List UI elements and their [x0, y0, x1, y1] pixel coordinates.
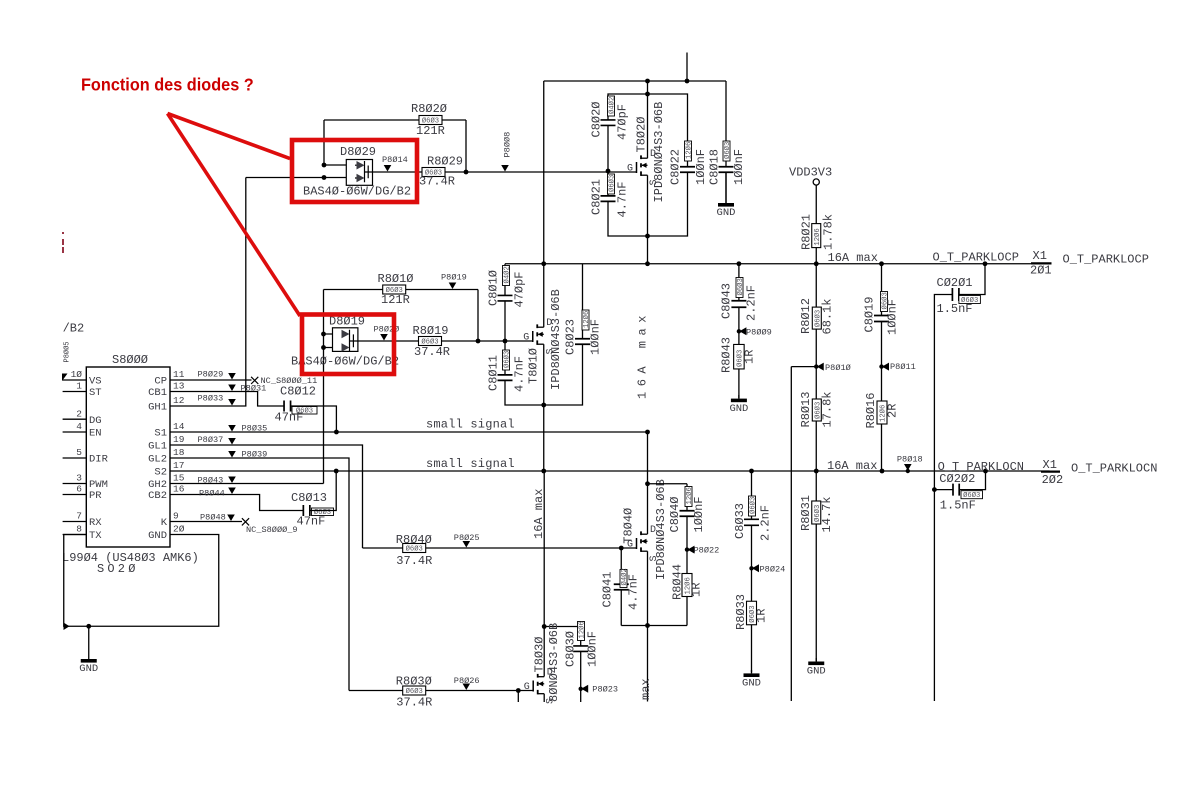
svg-text:1ØØnF: 1ØØnF — [694, 149, 708, 185]
pin 10 VS — [63, 379, 87, 381]
svg-text:Ø6Ø3: Ø6Ø3 — [748, 497, 757, 514]
svg-text:5: 5 — [76, 447, 82, 458]
T8020 cell box — [608, 94, 688, 236]
svg-text:R8Ø33: R8Ø33 — [734, 594, 748, 630]
transistor T8020 — [636, 162, 638, 173]
svg-text:2.2nF: 2.2nF — [759, 505, 773, 541]
resistor R8021 — [812, 224, 821, 248]
svg-text:47ØpF: 47ØpF — [513, 271, 527, 307]
svg-text:68.1k: 68.1k — [821, 298, 835, 334]
svg-text:C8Ø13: C8Ø13 — [291, 491, 327, 505]
svg-text:BAS4Ø-Ø6W/DG/B2: BAS4Ø-Ø6W/DG/B2 — [303, 185, 411, 199]
test point P8022 — [685, 547, 689, 551]
capacitor C8021 — [607, 196, 610, 202]
svg-text:1.5nF: 1.5nF — [940, 499, 976, 513]
nodes on P bus — [541, 261, 546, 266]
resistor R8016 — [877, 401, 887, 424]
svg-text:R8Ø13: R8Ø13 — [799, 391, 813, 427]
svg-text:37.4R: 37.4R — [396, 554, 432, 568]
test point P8014 — [384, 165, 392, 172]
svg-text:P8Ø18: P8Ø18 — [897, 455, 923, 465]
svg-text:P8Ø23: P8Ø23 — [592, 685, 618, 695]
svg-text:NC_S8ØØØ_9: NC_S8ØØØ_9 — [246, 525, 298, 535]
pin 7 RX — [63, 521, 87, 523]
test point P8043 — [228, 477, 236, 484]
connector X1 pin 202 — [1041, 471, 1060, 473]
svg-text:P8Ø29: P8Ø29 — [198, 370, 224, 380]
svg-text:TX: TX — [89, 530, 102, 542]
svg-text:O_T_PARKLOCN: O_T_PARKLOCN — [1071, 462, 1157, 476]
svg-text:C8Ø41: C8Ø41 — [601, 571, 615, 607]
test point P8037 — [228, 438, 236, 445]
svg-text:2Ø: 2Ø — [173, 524, 185, 535]
pin 1 ST — [63, 391, 87, 393]
ground below R8033 — [751, 670, 753, 673]
svg-text:12Ø6: 12Ø6 — [813, 228, 822, 245]
svg-text:Ø6Ø3: Ø6Ø3 — [723, 142, 732, 159]
pin 2 DG — [63, 418, 87, 420]
svg-text:GND: GND — [717, 207, 736, 219]
diode D8029 (BAS40-06W dual) — [346, 160, 372, 186]
svg-text:CP: CP — [154, 376, 167, 388]
svg-text:17: 17 — [173, 460, 184, 471]
wire S1 small signal — [170, 431, 648, 433]
svg-text:Ø6Ø3: Ø6Ø3 — [502, 351, 511, 368]
svg-text:R8Ø31: R8Ø31 — [799, 495, 813, 531]
pin 5 DIR — [63, 457, 87, 459]
svg-text:C8Ø1Ø: C8Ø1Ø — [487, 270, 501, 306]
svg-text:R8Ø29: R8Ø29 — [427, 155, 463, 169]
svg-text:6: 6 — [76, 484, 82, 495]
svg-text:16A max: 16A max — [828, 251, 878, 265]
svg-text:18: 18 — [173, 447, 185, 458]
test point P8019 — [449, 283, 457, 290]
IC S8000 — [86, 367, 170, 547]
capacitor C8040 — [686, 511, 689, 517]
svg-text:R8Ø16: R8Ø16 — [864, 392, 878, 428]
resistor R8010 — [383, 285, 406, 294]
wire top drain rail — [544, 53, 726, 264]
svg-text:C8Ø43: C8Ø43 — [720, 283, 734, 319]
red box around D8019 — [302, 315, 394, 375]
wire drain stub — [647, 81, 649, 94]
resistor R8030 — [403, 686, 426, 695]
no-connect NC_S8000_9 — [242, 518, 249, 525]
transistor T8040 — [636, 538, 638, 549]
svg-text:11: 11 — [173, 369, 185, 380]
resistor R8029 — [422, 168, 445, 177]
test point P8020 — [380, 334, 388, 341]
diode D8019 (BAS40-06W dual) — [333, 328, 358, 352]
svg-text:P8Ø24: P8Ø24 — [760, 565, 786, 575]
svg-text:121R: 121R — [416, 124, 445, 138]
capacitor C0201 — [934, 264, 985, 490]
svg-text:1R: 1R — [755, 609, 769, 623]
svg-text:Fonction des diodes ?: Fonction des diodes ? — [81, 74, 254, 95]
node w/ stub — [516, 688, 521, 693]
wire R8030 gate line — [349, 690, 533, 692]
node — [645, 79, 650, 84]
nodes on N bus — [334, 469, 339, 474]
pin 3 PWM — [63, 483, 87, 485]
wire T8010 drain/source — [543, 264, 545, 471]
svg-text:RX: RX — [89, 517, 102, 529]
svg-text:16: 16 — [173, 484, 185, 495]
svg-text:GND: GND — [729, 403, 748, 415]
svg-text:GH1: GH1 — [148, 402, 167, 414]
svg-text:S8ØØØ: S8ØØØ — [112, 353, 148, 367]
svg-text:GL2: GL2 — [148, 454, 167, 466]
node: D8029 left junctions — [322, 163, 327, 168]
test point P8025 — [463, 541, 471, 548]
svg-text:P8Ø26: P8Ø26 — [454, 676, 480, 686]
capacitor C8011 — [504, 375, 507, 381]
test point P8009 — [737, 329, 741, 333]
svg-text:GL1: GL1 — [148, 441, 167, 453]
svg-text:C8Ø4Ø: C8Ø4Ø — [668, 496, 682, 532]
svg-text:P8Ø37: P8Ø37 — [198, 435, 224, 445]
capacitor C0202 — [934, 471, 985, 701]
test point P8008 — [501, 165, 509, 172]
capacitor C8043 — [738, 264, 740, 399]
wire CB2 pin 16 to C8013 — [170, 495, 303, 511]
svg-text:C8Ø11: C8Ø11 — [487, 355, 501, 391]
transistor T8030 — [532, 681, 534, 692]
test point P8044 — [228, 488, 236, 495]
svg-text:8: 8 — [76, 524, 82, 535]
test point P8018 — [904, 464, 912, 471]
svg-text:C8Ø23: C8Ø23 — [564, 319, 578, 355]
resistor R8040 — [403, 544, 426, 553]
wire GL2 pin 18 — [170, 458, 349, 691]
svg-text:47nF: 47nF — [275, 411, 304, 425]
svg-text:IPD8ØNØ4S3-Ø6B: IPD8ØNØ4S3-Ø6B — [652, 102, 666, 203]
svg-text:GND: GND — [742, 678, 761, 690]
pin 4 EN — [63, 431, 87, 433]
wire GL1 pin 19 — [170, 445, 363, 548]
pin 8 TX — [63, 534, 87, 536]
svg-text:C8Ø2Ø: C8Ø2Ø — [590, 101, 604, 137]
wire R8020 top loop — [324, 120, 466, 172]
svg-text:T8Ø1Ø: T8Ø1Ø — [527, 348, 541, 384]
resistor R8031 — [815, 471, 817, 661]
svg-text:CB1: CB1 — [148, 387, 167, 399]
svg-text:GND: GND — [79, 663, 98, 675]
svg-text:13: 13 — [173, 381, 185, 392]
svg-text:R8Ø19: R8Ø19 — [413, 324, 449, 338]
capacitor C8041 — [620, 584, 623, 590]
svg-text:19: 19 — [173, 434, 185, 445]
transistor T8010 — [532, 331, 534, 342]
svg-text:2Ø2: 2Ø2 — [1042, 473, 1064, 487]
svg-text:16A max: 16A max — [827, 459, 877, 473]
svg-text:CB2: CB2 — [148, 490, 167, 502]
svg-text:G: G — [524, 682, 530, 693]
capacitor C8018 — [725, 81, 727, 203]
svg-text:P8Ø14: P8Ø14 — [382, 155, 408, 165]
svg-text:P8Ø1Ø: P8Ø1Ø — [825, 363, 851, 373]
svg-text:GND: GND — [807, 666, 826, 678]
svg-text:R8Ø3Ø: R8Ø3Ø — [396, 675, 432, 689]
svg-text:BAS4Ø-Ø6W/DG/B2: BAS4Ø-Ø6W/DG/B2 — [291, 355, 399, 369]
svg-text:VDD3V3: VDD3V3 — [789, 166, 832, 180]
resistor R8019 — [419, 337, 442, 346]
ground below C8018 — [725, 172, 727, 203]
svg-text:47nF: 47nF — [297, 515, 326, 529]
ground below R8043 — [738, 395, 740, 399]
T8040 cell — [619, 546, 624, 551]
svg-text:4.7nF: 4.7nF — [513, 356, 527, 392]
node — [464, 170, 469, 175]
svg-text:small signal: small signal — [426, 418, 515, 432]
svg-text:X1: X1 — [1033, 249, 1047, 263]
svg-text:P8ØØ5: P8ØØ5 — [63, 341, 72, 362]
svg-text:121R: 121R — [381, 293, 410, 307]
svg-text:47ØpF: 47ØpF — [616, 104, 630, 140]
capacitor C8019 — [881, 264, 883, 471]
svg-text:14.7k: 14.7k — [820, 496, 834, 532]
red box around D8029 — [292, 140, 417, 202]
svg-text:17.8k: 17.8k — [821, 391, 835, 427]
svg-text:P8ØØ9: P8ØØ9 — [746, 328, 772, 338]
wire C8041 column — [620, 548, 622, 626]
wire R8019 to T8010 gate — [442, 340, 533, 342]
svg-text:8ØNØ4S3-Ø6B: 8ØNØ4S3-Ø6B — [547, 623, 561, 702]
nodes D8019 — [321, 332, 326, 337]
wire T8040 drain/source + cell — [621, 432, 687, 702]
wire S2 / N bus — [170, 470, 1050, 472]
test point P8010 — [814, 364, 818, 368]
wire P8010 branch — [791, 367, 816, 701]
svg-text:P8ØØ8: P8ØØ8 — [503, 132, 513, 158]
wire GH2 pin 15 — [170, 483, 324, 485]
svg-text:C8Ø18: C8Ø18 — [708, 149, 722, 185]
svg-text:IPD8ØNØ4S3-Ø6B: IPD8ØNØ4S3-Ø6B — [654, 479, 668, 580]
svg-text:37.4R: 37.4R — [419, 175, 455, 189]
wire R8010 loop — [324, 290, 479, 342]
svg-text:1ØØnF: 1ØØnF — [586, 631, 600, 667]
svg-text:P8Ø31: P8Ø31 — [241, 384, 267, 394]
svg-text:1ØØnF: 1ØØnF — [732, 149, 746, 185]
svg-text:P8Ø22: P8Ø22 — [694, 546, 720, 556]
svg-text:O_T_PARKLOCP: O_T_PARKLOCP — [933, 250, 1019, 264]
svg-text:T8Ø4Ø: T8Ø4Ø — [622, 508, 636, 544]
svg-text:Ø6Ø3: Ø6Ø3 — [736, 278, 745, 295]
svg-text:Ø4Ø2: Ø4Ø2 — [502, 266, 511, 283]
wire VDD to bus — [815, 185, 817, 264]
svg-text:12Ø6: 12Ø6 — [684, 142, 693, 159]
test point P8024 — [749, 566, 753, 570]
test point P8033 — [228, 399, 236, 406]
capacitor C8033 — [751, 471, 753, 672]
svg-text:R8Ø4Ø: R8Ø4Ø — [396, 533, 432, 547]
svg-text:P8Ø43: P8Ø43 — [198, 476, 224, 486]
wire K pin 9 — [170, 521, 242, 523]
svg-text:3: 3 — [76, 473, 82, 484]
svg-text:T8Ø2Ø: T8Ø2Ø — [635, 116, 649, 152]
test point P8039 — [228, 451, 236, 458]
svg-text:T8Ø3Ø: T8Ø3Ø — [533, 636, 547, 672]
wire T8030 drain — [544, 471, 581, 702]
svg-text:1.5nF: 1.5nF — [937, 302, 973, 316]
svg-text:C8Ø12: C8Ø12 — [280, 385, 316, 399]
svg-text:R8Ø43: R8Ø43 — [720, 337, 734, 373]
svg-text:2.2nF: 2.2nF — [745, 285, 759, 321]
resistor R8012 — [815, 264, 817, 471]
test point P8031 — [228, 385, 236, 392]
svg-text:C8Ø22: C8Ø22 — [669, 149, 683, 185]
red callout line to D8019 box — [168, 114, 301, 317]
wire T8020 source to bus — [647, 236, 649, 264]
connector X1 pin 201 underline — [1031, 262, 1052, 264]
test point P8026 — [463, 684, 471, 691]
svg-text:1Ø: 1Ø — [71, 369, 83, 380]
svg-text:1R: 1R — [743, 350, 757, 364]
svg-text:P8Ø19: P8Ø19 — [441, 273, 467, 283]
resistor R8043 — [734, 344, 745, 369]
svg-text:max: max — [639, 678, 653, 700]
test point P8023 — [579, 687, 583, 691]
capacitor C8020 — [607, 120, 610, 126]
svg-text:/B2: /B2 — [63, 322, 85, 336]
svg-text:K: K — [161, 517, 168, 529]
svg-text:VS: VS — [89, 376, 102, 388]
svg-text:C8Ø33: C8Ø33 — [733, 503, 747, 539]
svg-text:37.4R: 37.4R — [396, 696, 432, 710]
svg-text:R8Ø1Ø: R8Ø1Ø — [378, 272, 414, 286]
svg-text:R8Ø44: R8Ø44 — [671, 564, 685, 600]
svg-text:IPD8ØNØ4S3-Ø6B: IPD8ØNØ4S3-Ø6B — [549, 289, 563, 390]
svg-text:C8Ø21: C8Ø21 — [590, 179, 604, 215]
test point P8029 — [228, 373, 236, 380]
resistor R8033 — [747, 601, 757, 625]
svg-text:16A max: 16A max — [636, 310, 650, 399]
no-connect NC_S8000_11 — [251, 377, 258, 384]
svg-text:R8Ø21: R8Ø21 — [800, 214, 814, 250]
svg-text:X1: X1 — [1043, 458, 1057, 472]
capacitor C8010 — [504, 295, 507, 301]
wire D8019 out — [358, 340, 419, 342]
test point P8011 — [879, 364, 883, 368]
ground S8000 — [88, 626, 90, 659]
node gate — [606, 169, 611, 174]
svg-text:SO2Ø: SO2Ø — [97, 562, 139, 576]
svg-text:small signal: small signal — [426, 457, 515, 471]
svg-text:14: 14 — [173, 421, 185, 432]
svg-text:2R: 2R — [886, 404, 900, 418]
capacitor C8022 — [686, 167, 689, 173]
wire CP pin 11 — [170, 379, 252, 381]
svg-text:P8Ø48: P8Ø48 — [200, 513, 226, 523]
svg-text:R8Ø12: R8Ø12 — [799, 298, 813, 334]
test point P8048 — [227, 515, 235, 522]
svg-text:ST: ST — [89, 387, 102, 399]
wire CB1 pin 13 to C8012 — [170, 392, 284, 407]
wire C8013 to S2 — [310, 471, 336, 511]
svg-text:S2: S2 — [154, 467, 167, 479]
svg-text:P8Ø33: P8Ø33 — [198, 394, 224, 404]
svg-text:C8Ø3Ø: C8Ø3Ø — [564, 631, 578, 667]
svg-text:P8Ø25: P8Ø25 — [454, 533, 480, 543]
wire D8029 out — [373, 171, 423, 173]
svg-text:1: 1 — [76, 381, 82, 392]
wire into D8019 — [324, 334, 333, 484]
svg-text:7: 7 — [76, 511, 82, 522]
wire R8040 gate line — [363, 547, 637, 549]
svg-text:1.78k: 1.78k — [822, 214, 836, 250]
resistor R8020 — [419, 116, 442, 125]
svg-text:DG: DG — [89, 415, 102, 427]
svg-text:O_T_PARKLOCP: O_T_PARKLOCP — [1063, 252, 1149, 266]
svg-text:CØ2Ø1: CØ2Ø1 — [937, 276, 973, 290]
svg-text:P8Ø44: P8Ø44 — [199, 489, 225, 499]
svg-text:S1: S1 — [154, 428, 167, 440]
svg-text:G: G — [523, 333, 529, 344]
svg-text:PR: PR — [89, 490, 102, 502]
capacitor C8012 — [284, 401, 291, 412]
wire C8012 to S1 — [291, 406, 337, 432]
capacitor C8030 — [580, 627, 582, 703]
pin 6 PR — [63, 494, 87, 496]
svg-text:2Ø1: 2Ø1 — [1030, 264, 1052, 278]
svg-text:1R: 1R — [690, 583, 704, 597]
resistor R8044 — [682, 574, 692, 597]
wire R8029 to gate bus — [445, 171, 636, 173]
capacitor C8023 — [581, 339, 584, 345]
svg-text:4.7nF: 4.7nF — [616, 181, 630, 217]
svg-text:CØ2Ø2: CØ2Ø2 — [939, 472, 975, 486]
svg-text:R8Ø2Ø: R8Ø2Ø — [411, 102, 447, 116]
svg-text:4: 4 — [76, 421, 82, 432]
svg-text:GND: GND — [148, 530, 167, 542]
T8010 cell box — [505, 264, 583, 405]
wire T8020 drain/source — [647, 94, 649, 236]
svg-text:1ØØnF: 1ØØnF — [589, 319, 603, 355]
pin 10 VS input flag — [62, 374, 68, 382]
svg-text:1ØØnF: 1ØØnF — [886, 299, 900, 335]
svg-text:15: 15 — [173, 473, 185, 484]
wire GH1 pin 12 riser to D8029 — [170, 178, 246, 407]
svg-text:4.7nF: 4.7nF — [627, 574, 641, 610]
wire into D8029 — [246, 165, 346, 178]
svg-text:EN: EN — [89, 428, 102, 440]
svg-text:1ØØnF: 1ØØnF — [692, 496, 706, 532]
svg-text:P8Ø11: P8Ø11 — [890, 362, 916, 372]
resistor R8013 — [812, 399, 821, 421]
svg-text:G: G — [627, 164, 633, 175]
svg-text:9: 9 — [173, 511, 179, 522]
wire TX/GND loop — [64, 535, 219, 627]
svg-text:D8Ø29: D8Ø29 — [340, 145, 376, 159]
svg-text:DIR: DIR — [89, 454, 109, 466]
red callout line to D8029 box — [168, 114, 291, 159]
ground below R8031 — [815, 658, 817, 662]
svg-text:P8Ø35: P8Ø35 — [242, 424, 268, 434]
svg-text:12: 12 — [173, 395, 185, 406]
svg-text:P8Ø39: P8Ø39 — [242, 450, 268, 460]
svg-text:C8Ø19: C8Ø19 — [863, 296, 877, 332]
red dashes artifact at left edge — [62, 232, 64, 253]
test point P8035 — [228, 425, 236, 432]
svg-text:2: 2 — [76, 408, 82, 419]
capacitor C8013 — [303, 505, 310, 516]
svg-text:37.4R: 37.4R — [414, 345, 450, 359]
wire P output bus — [505, 263, 1031, 265]
